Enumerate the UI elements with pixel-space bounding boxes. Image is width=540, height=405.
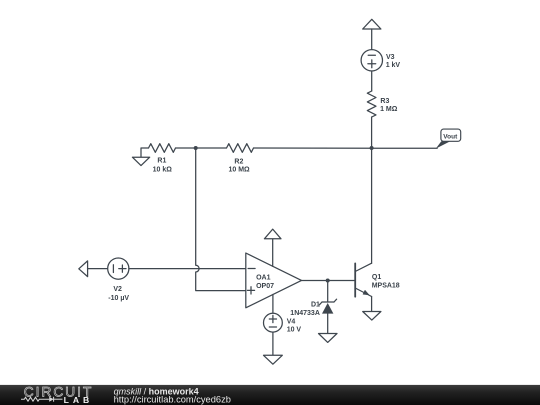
svg-text:1 kV: 1 kV — [386, 62, 401, 69]
node junction R3/collector — [370, 146, 374, 150]
power arrow V2 (left) — [79, 261, 88, 277]
power arrow above V3 — [363, 19, 381, 29]
svg-text:V4: V4 — [287, 319, 296, 326]
wire — [176, 147, 227, 149]
svg-text:10 V: 10 V — [287, 327, 302, 334]
svg-text:R3: R3 — [380, 98, 389, 105]
svg-text:OA1: OA1 — [256, 275, 271, 282]
voltage source V4 — [264, 313, 283, 332]
wire — [327, 314, 329, 334]
svg-text:LAB: LAB — [64, 395, 94, 405]
svg-text:R1: R1 — [157, 158, 166, 165]
wire — [272, 332, 274, 355]
wire — [371, 71, 373, 91]
ground (V4) — [264, 355, 283, 364]
resistor R3 — [367, 91, 376, 117]
wire emitter — [371, 297, 373, 312]
ground (D1) — [319, 334, 338, 343]
resistor R2 — [227, 144, 254, 153]
svg-text:D1: D1 — [311, 302, 320, 309]
footer bar — [0, 385, 540, 405]
svg-text:Vout: Vout — [443, 133, 458, 140]
svg-text:MPSA18: MPSA18 — [372, 282, 400, 289]
wire — [371, 29, 373, 50]
wire op-amp output — [302, 280, 356, 282]
resistor R1 — [149, 144, 176, 153]
svg-text:OP07: OP07 — [256, 283, 274, 290]
op-amp OA1 — [246, 253, 302, 308]
wire op-amp V- to V4 — [272, 295, 274, 314]
wire to D1 — [327, 281, 329, 303]
power arrow above op-amp — [264, 229, 281, 239]
node junction R1/R2 — [194, 146, 198, 150]
ground (Q1) — [363, 312, 381, 321]
wire — [371, 117, 373, 148]
wire feedback vertical with hop — [196, 148, 246, 291]
ground (R1) — [141, 148, 149, 157]
wire — [88, 268, 108, 270]
Vout flag — [436, 141, 451, 148]
svg-text:10 MΩ: 10 MΩ — [229, 166, 251, 173]
wire op-amp V+ — [272, 239, 274, 266]
wire collector column — [371, 148, 373, 263]
voltage source V2 — [108, 258, 129, 279]
svg-text:R2: R2 — [234, 159, 243, 166]
wire to Vout — [254, 147, 438, 149]
node junction D1 — [326, 279, 330, 283]
svg-text:V3: V3 — [386, 54, 395, 61]
CircuitLab logo resistor-diode row — [21, 397, 63, 402]
svg-text:http://circuitlab.com/cyed6zb: http://circuitlab.com/cyed6zb — [114, 395, 231, 405]
svg-text:10 kΩ: 10 kΩ — [153, 167, 173, 174]
svg-text:1 MΩ: 1 MΩ — [380, 106, 398, 113]
voltage source V3 — [361, 50, 382, 71]
zener diode D1 — [322, 301, 334, 303]
svg-text:-10 µV: -10 µV — [108, 295, 129, 302]
svg-text:V2: V2 — [113, 286, 122, 293]
svg-text:1N4733A: 1N4733A — [290, 310, 320, 317]
wire V2 to op-amp minus input — [129, 268, 246, 270]
transistor Q1 — [354, 263, 356, 296]
svg-text:Q1: Q1 — [372, 274, 381, 281]
